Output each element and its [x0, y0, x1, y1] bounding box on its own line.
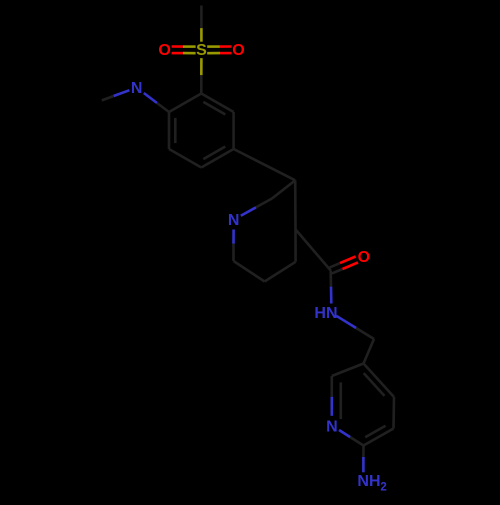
svg-text:HN: HN [314, 305, 337, 322]
svg-text:NH: NH [357, 473, 380, 490]
svg-text:O: O [158, 42, 170, 59]
svg-text:N: N [228, 212, 240, 229]
svg-text:2: 2 [380, 482, 386, 494]
svg-text:O: O [232, 42, 244, 59]
svg-text:O: O [358, 249, 370, 266]
svg-text:N: N [326, 419, 338, 436]
svg-text:S: S [196, 42, 207, 59]
svg-text:N: N [131, 80, 143, 97]
